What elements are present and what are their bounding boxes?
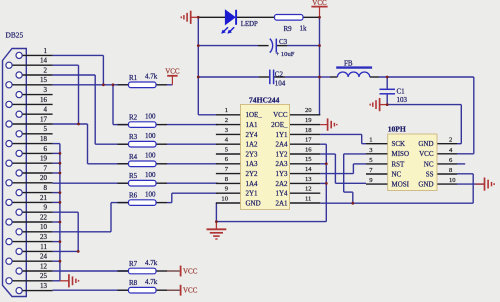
svg-text:VCC: VCC: [419, 150, 434, 158]
svg-text:1k: 1k: [300, 24, 308, 32]
svg-text:14: 14: [40, 57, 48, 65]
svg-text:18: 18: [305, 127, 312, 134]
svg-text:5: 5: [44, 125, 48, 133]
svg-text:SS: SS: [426, 170, 434, 178]
svg-text:24: 24: [40, 253, 48, 261]
svg-text:15: 15: [305, 156, 312, 163]
svg-text:1A1: 1A1: [246, 121, 259, 129]
svg-text:2A1: 2A1: [275, 199, 288, 207]
svg-text:17: 17: [305, 137, 312, 144]
svg-text:4.7k: 4.7k: [145, 73, 158, 81]
svg-text:C2: C2: [275, 70, 284, 78]
svg-text:4: 4: [44, 106, 48, 114]
svg-text:4.7k: 4.7k: [145, 259, 158, 267]
svg-text:10: 10: [40, 223, 48, 231]
svg-text:2: 2: [449, 137, 452, 144]
svg-text:R5: R5: [129, 172, 138, 180]
svg-text:17: 17: [40, 115, 48, 123]
svg-text:C3: C3: [279, 38, 288, 46]
svg-text:FB: FB: [344, 59, 353, 67]
svg-text:4.7k: 4.7k: [145, 278, 158, 286]
svg-text:10: 10: [221, 195, 228, 202]
svg-text:2: 2: [44, 66, 48, 74]
svg-text:12: 12: [40, 262, 48, 270]
svg-text:3: 3: [44, 86, 48, 94]
svg-text:10: 10: [449, 177, 456, 184]
svg-text:22: 22: [40, 213, 48, 221]
svg-text:2Y4: 2Y4: [246, 131, 259, 139]
svg-text:1Y2: 1Y2: [275, 150, 288, 158]
svg-text:21: 21: [40, 194, 48, 202]
svg-text:R6: R6: [129, 192, 138, 200]
svg-text:1OE_: 1OE_: [246, 111, 263, 119]
svg-text:GND: GND: [246, 199, 261, 207]
svg-text:20: 20: [305, 107, 312, 114]
svg-text:7: 7: [44, 164, 48, 172]
svg-text:16: 16: [40, 96, 48, 104]
svg-text:1: 1: [225, 107, 228, 114]
svg-text:SCK: SCK: [392, 140, 406, 148]
svg-text:MISO: MISO: [392, 150, 410, 158]
svg-text:VCC: VCC: [312, 0, 327, 7]
svg-text:1A2: 1A2: [246, 141, 259, 149]
svg-text:NC: NC: [424, 160, 434, 168]
svg-text:100: 100: [145, 171, 156, 179]
svg-text:2Y2: 2Y2: [246, 170, 259, 178]
svg-text:DB25: DB25: [6, 31, 24, 40]
svg-text:11: 11: [40, 243, 47, 251]
svg-text:12: 12: [305, 186, 312, 193]
svg-text:1Y3: 1Y3: [275, 170, 288, 178]
svg-text:2A4: 2A4: [275, 141, 288, 149]
svg-text:6: 6: [44, 145, 48, 153]
svg-text:100: 100: [145, 152, 156, 160]
svg-text:1A3: 1A3: [246, 160, 259, 168]
svg-text:MOSI: MOSI: [392, 181, 410, 189]
svg-text:C1: C1: [397, 87, 406, 95]
svg-text:25: 25: [40, 272, 48, 280]
svg-text:VCC: VCC: [273, 111, 288, 119]
svg-text:100: 100: [145, 132, 156, 140]
svg-text:23: 23: [40, 233, 48, 241]
svg-text:2: 2: [225, 117, 228, 124]
svg-text:GND: GND: [418, 181, 433, 189]
svg-text:NC: NC: [392, 170, 402, 178]
svg-text:2Y3: 2Y3: [246, 150, 259, 158]
svg-text:GND: GND: [418, 140, 433, 148]
svg-text:R8: R8: [129, 279, 138, 287]
svg-text:13: 13: [305, 176, 312, 183]
svg-text:16: 16: [305, 146, 312, 153]
svg-text:2Y1: 2Y1: [246, 190, 259, 198]
svg-text:103: 103: [397, 96, 408, 104]
svg-text:8: 8: [44, 184, 48, 192]
svg-text:R7: R7: [129, 260, 138, 268]
svg-text:1Y4: 1Y4: [275, 190, 288, 198]
svg-text:R3: R3: [129, 133, 138, 141]
svg-text:19: 19: [40, 155, 48, 163]
svg-text:74HC244: 74HC244: [249, 95, 280, 104]
svg-text:2A3: 2A3: [275, 160, 288, 168]
svg-text:1Y1: 1Y1: [275, 131, 288, 139]
svg-text:100: 100: [145, 112, 156, 120]
svg-text:+ 10uF: + 10uF: [276, 51, 295, 58]
svg-text:2A2: 2A2: [275, 180, 288, 188]
svg-text:VCC: VCC: [165, 68, 180, 76]
svg-text:1A4: 1A4: [246, 180, 259, 188]
svg-text:11: 11: [305, 195, 311, 202]
svg-text:R4: R4: [129, 153, 138, 161]
svg-text:1: 1: [44, 47, 48, 55]
svg-text:13: 13: [40, 282, 48, 290]
svg-text:R1: R1: [129, 74, 138, 82]
svg-text:R9: R9: [284, 25, 293, 33]
svg-text:104: 104: [275, 80, 286, 88]
svg-text:LEDP: LEDP: [241, 21, 258, 28]
svg-text:19: 19: [305, 117, 312, 124]
svg-text:10PH: 10PH: [388, 125, 406, 134]
svg-text:100: 100: [145, 190, 156, 198]
svg-text:R2: R2: [129, 114, 138, 122]
svg-text:18: 18: [40, 135, 48, 143]
svg-text:VCC: VCC: [183, 287, 198, 295]
svg-text:2OE_: 2OE_: [271, 121, 288, 129]
svg-text:VCC: VCC: [183, 268, 198, 276]
svg-text:14: 14: [305, 166, 312, 173]
svg-text:15: 15: [40, 76, 48, 84]
svg-text:1: 1: [369, 137, 372, 144]
svg-text:20: 20: [40, 174, 48, 182]
svg-text:RST: RST: [392, 160, 406, 168]
svg-text:9: 9: [44, 204, 48, 212]
